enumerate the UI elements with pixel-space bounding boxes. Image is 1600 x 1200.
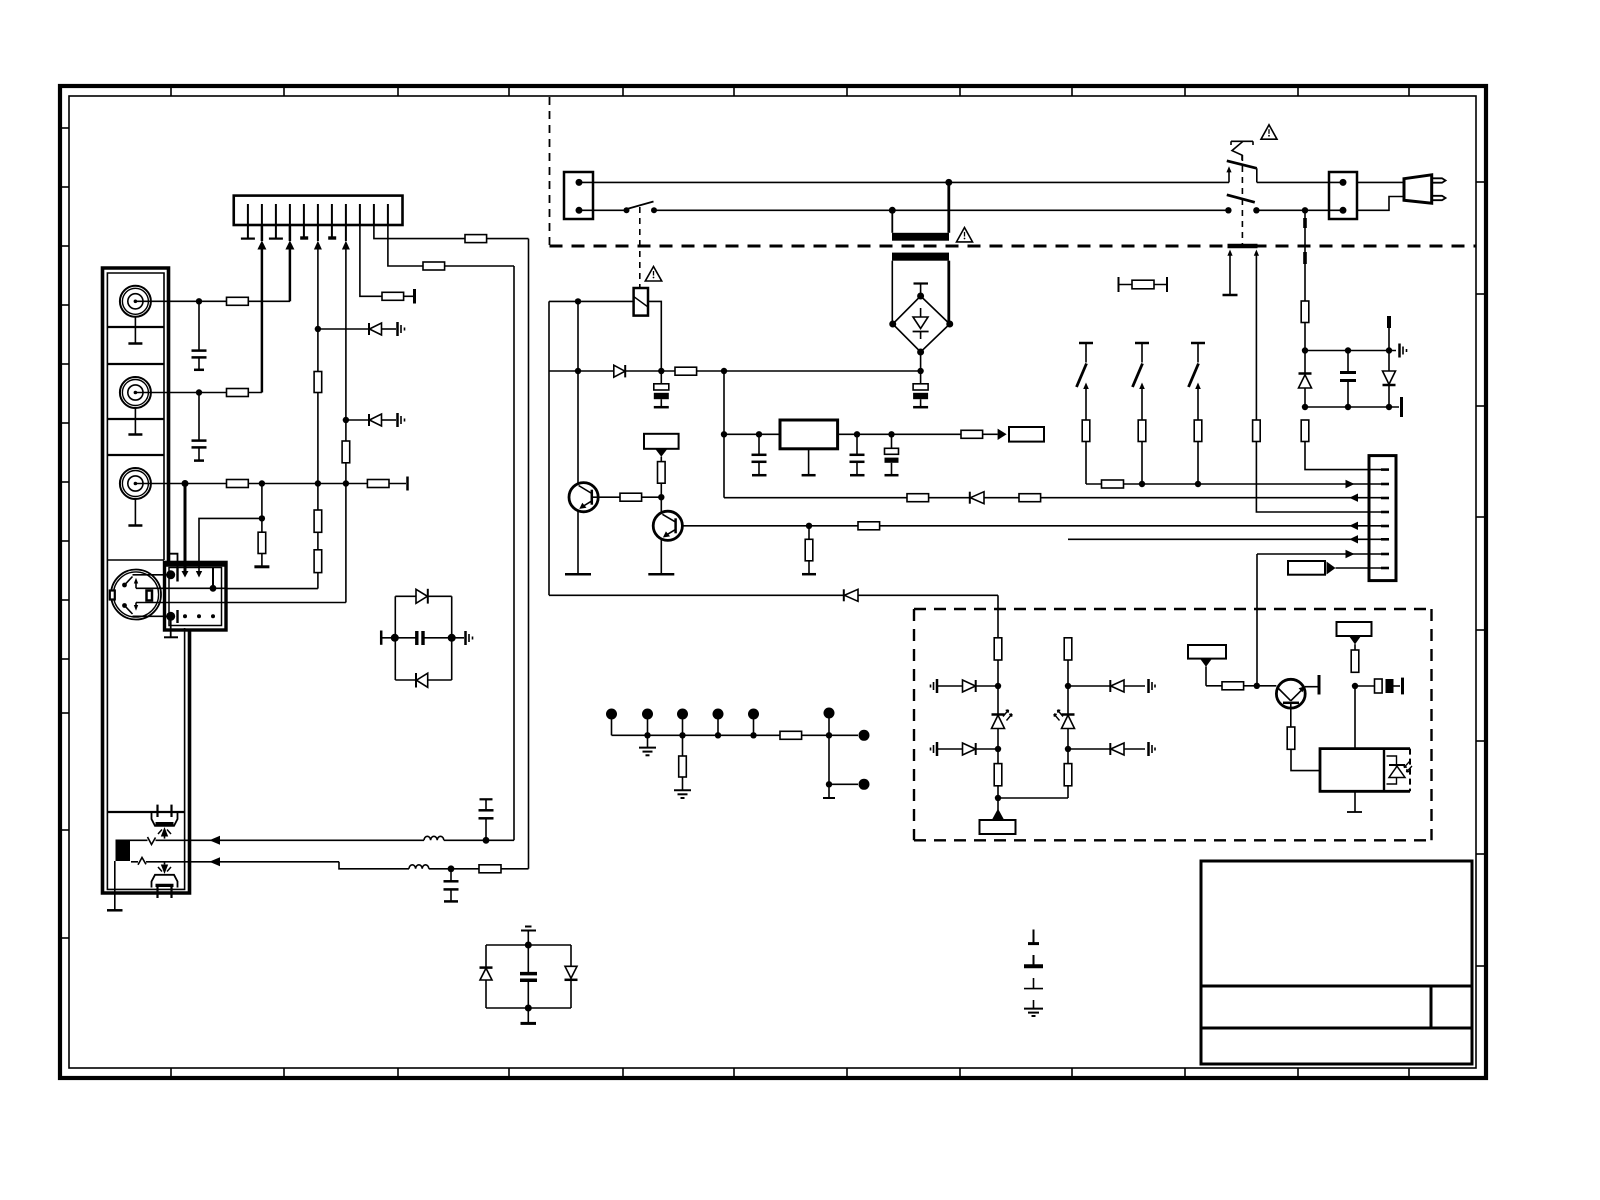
resistor on bus [1102,480,1124,488]
J1 pin3 stub with terminal [275,225,277,238]
node AGC cap [448,865,455,872]
arrow contact right below bar [1254,250,1259,256]
wire down to second row [828,735,830,784]
arrow into pin8 [1327,562,1336,575]
chassis ground right of snubber row [1398,344,1401,358]
node fuse-relay junction [575,298,581,304]
wire svideo luma feed [226,588,318,590]
net label box standby [1188,645,1226,659]
transformer center tap terminal [920,284,922,297]
wire svideo chroma feed [226,602,346,604]
diode clamp lower B [1068,748,1110,750]
pin box top stub contact [212,568,214,588]
S-video pin 2 [134,578,138,584]
S-video pin 4 [134,605,138,611]
wire IF line to coil [156,839,425,841]
net label box LED common [980,820,1016,834]
node LED B upper [1065,683,1071,689]
resistor Q3 emitter [1287,727,1295,749]
bridge rectifier BR1 diamond [893,296,950,352]
regulator U1 [780,420,838,449]
resistor on bus right [780,731,802,739]
node jack C right 1 [259,480,265,486]
node row526 divider [806,523,812,529]
P1 pin dots [576,179,583,186]
resistor AGC [479,865,501,873]
resistor 2 on row 497 [1019,494,1041,502]
arrow IF into panel [209,836,220,845]
node 371 bridge output [917,368,923,374]
degauss posistor switch A [1079,342,1093,345]
panel divider tuner [107,811,184,813]
node 371 relay output [658,368,664,374]
rear panel outer outline [103,268,190,893]
resistor Q3 base [1222,682,1244,690]
wire base row to pin5 [682,525,1381,527]
pin box bottom row contacts [166,612,175,621]
wire pin7 feed [1257,553,1381,555]
wire PSU bottom rail [549,594,998,596]
wire jack A row [135,300,290,302]
chassis ground loop [464,631,467,645]
chassis ground chroma clamp [396,413,399,427]
electrolytic capacitor at opto [1355,685,1375,687]
tuner block black [116,840,131,862]
diode top of loop [416,589,427,603]
node loop right [448,634,456,642]
resistor pin10 [465,235,487,243]
warning triangle at transformer [957,228,973,242]
arrow out of pin6 [1349,535,1358,543]
degauss posistor switch C [1191,342,1205,345]
transistor Q1 [569,483,598,512]
electrolytic capacitor at 661 [654,384,669,390]
J1 pin10 wire to rail B [374,225,529,239]
panel divider 4 [107,454,164,456]
rail A vertical [513,266,515,840]
node input cap [756,431,762,437]
resistor LED column A top [994,638,1002,660]
degauss posistor switch B [1135,342,1149,345]
dashed link S1 to fuse [639,207,641,288]
node loop left [391,634,399,642]
transformer T1 primary leads [947,182,950,232]
node opto top [1352,683,1358,689]
fuse F1 (box with diagonal) [634,288,648,316]
resistor to ground at 809 [808,526,810,540]
panel divider 5 [107,559,164,561]
AC plug prongs [1432,178,1446,182]
RCA jack J-A [120,286,151,317]
wire jackC to svideo shell [184,484,187,572]
arrow out of pin3 [1349,494,1358,502]
wire LED feed to pin6 [1068,538,1381,540]
wire ground link column [261,484,263,533]
opto coil top lead [1354,686,1356,749]
resistor ground link [258,532,266,553]
CRT socket pin dot 5 [748,709,759,720]
clamp diode chroma [346,419,369,421]
LED B [1067,686,1069,714]
J1 pin6 wire with arrow [317,225,319,241]
wire bridge output to DC node [920,352,922,371]
resistor jack C end [367,480,389,488]
ground right lower [1147,742,1150,756]
legend terminal symbol 1 [1033,930,1035,944]
title block [1201,861,1472,1064]
wire bus to connector pin2 [1086,483,1381,485]
node output cap 2 [888,431,894,437]
node jack C right 3 [343,480,349,486]
terminal below diode pair [527,1008,529,1023]
transformer T1 secondary leads [891,261,893,324]
terminal bar end of lower row [1400,397,1403,417]
resistor divider upper [658,462,666,484]
node jack B cap [196,389,202,395]
terminal bar jack C row [406,477,409,491]
arrow into pin2 [1346,480,1355,488]
transistor Q2 [653,511,682,540]
wire AC line lower segment 2 [654,209,1228,211]
wire AGC line inside panel [131,861,138,863]
capacitor IF with terminal [485,819,487,841]
node LED B lower [1065,746,1071,752]
wire jack C row [135,483,367,485]
resistor degauss (vertical) [1301,301,1309,323]
tuner IF output symbol [152,813,178,826]
resistor LED A lower [997,749,999,764]
resistor on row 497 [907,494,929,502]
zener diode down at 1389 [1388,351,1390,372]
resistor pin11 [423,262,445,270]
resistor LED B lower [1067,749,1069,764]
frame zone ticks right [1476,182,1486,966]
net label box at pin8 [1288,561,1325,575]
terminal above bottom diode pair [525,926,532,928]
diode clamp upper A [937,685,963,687]
resistor LED column B top [1064,638,1072,660]
opto bottom lead to ground [1354,791,1356,811]
wire connector to plug upper [1357,181,1404,183]
node regulator input [721,431,727,437]
contact gap AGC [138,858,146,865]
ground left lower [936,742,939,756]
panel divider 2 [107,363,164,365]
capacitor jack A [198,301,200,350]
S-video key slots [110,591,115,600]
node jack C right 2 [315,480,321,486]
node 371 at Q1 column [575,368,581,374]
mains interlock switch S2a [1231,140,1253,142]
frame zone ticks bottom [171,1068,1409,1078]
node output cap 1 [854,431,860,437]
legend terminal symbol 3 [1033,978,1035,988]
earth ground below resistor [674,789,691,791]
arrow AGC into panel [209,857,220,866]
transformer T1 secondary bar [892,253,949,261]
mains interlock switch S2b [1227,195,1255,203]
optocoupler/relay box [1320,749,1410,792]
wire CRT ground bus [612,734,781,736]
node IF cap [483,837,490,844]
J1 pin5 stub with half bar [303,225,305,237]
resistor opto feed [1351,650,1359,672]
arrow from label [1200,659,1212,667]
terminal stub above snubber [1387,316,1391,328]
warning triangle at mains switch [1261,125,1277,139]
antenna isolation loop [395,595,451,597]
resistor luma lower 2 [317,532,319,550]
contact gap IF [148,837,156,845]
node bus junctions [1139,481,1145,487]
J1 pin7 stub with half bar [331,225,333,237]
wire DC rail row 371 [549,370,921,372]
J1 pin2 wire to jack B [261,225,264,241]
wire AGC step [339,862,409,869]
transformer T1 primary bar [892,233,949,241]
drawing frame outer border [60,86,1486,1078]
wire to pin dot 7 [829,734,858,736]
node top of diode pair [525,942,532,949]
node degauss column top [1302,207,1308,213]
diode on row 497 [969,492,971,504]
RCA jack J-C [120,468,151,499]
wire fuse to rectifier column [648,301,661,371]
wire regulator column [723,371,725,498]
diode clamp upper B [1068,685,1110,687]
resistor luma column [314,372,322,393]
connector J2 (8-pin right) [1369,456,1396,581]
resistor jack C [227,480,249,488]
zener diode up at 1305 [1304,351,1306,374]
wire AGC coil to resistor [429,868,479,870]
wire LED common [998,797,1068,799]
wire snubber row lower [1305,406,1399,408]
tuner AGC input symbol [152,875,178,888]
rail B vertical [528,239,530,869]
pin box top row contacts [166,570,175,579]
node bus right [826,732,832,738]
panel divider 3 [107,418,164,420]
diode on bottom rail [843,589,845,601]
terminal stub below [828,784,830,797]
CRT socket pin dot 2 [642,709,653,720]
frame zone ticks top [171,86,1409,96]
wire col 1256 to pin4 [1256,442,1381,513]
pin box side link [169,554,178,568]
resistor at col 1305 [1301,420,1309,442]
dashed front panel box [914,609,1432,840]
node LED A lower [995,746,1001,752]
ground tuner shield [114,861,116,910]
node jack A cap [196,298,202,304]
thermal element bar on boundary [1228,244,1258,249]
capacitor snubber at 1348 [1347,351,1349,373]
fusible resistor with terminals [1118,277,1120,292]
wire IF line inside panel [130,839,148,841]
wire Q1 base [592,496,620,498]
chassis ground luma clamp [396,322,399,336]
J1 pin8 wire with arrow [345,225,347,241]
J1 pins inside [248,204,388,225]
S-video pin box [165,562,227,630]
dashed AC-section boundary horizontal [550,245,1477,248]
S-video pin 1 [122,583,127,588]
wire left rail of PSU box [548,301,550,595]
diode up in pair [480,966,493,969]
wire mains to fuse [549,300,634,302]
clamp diode luma [318,328,369,330]
resistor at col 1256 [1253,420,1261,442]
S-video pin 3 [122,603,127,608]
frame zone ticks left [60,128,69,938]
resistor on row 526 [858,522,880,530]
AC plug body [1404,175,1432,203]
regulator ground lead [808,449,810,475]
switch S1 power [624,207,630,213]
J2 pin bars [1381,470,1389,568]
capacitor regulator output [856,434,858,454]
electrolytic capacitor regulator output [885,448,899,454]
resistor jack B [227,389,249,397]
ground Q2 emitter [648,573,674,576]
CRT socket pin dot 6 [824,708,835,719]
dashed link S2 levers [1241,155,1243,244]
capacitor mid pair [520,972,537,976]
wire to Q3 base [1206,685,1276,687]
panel divider 1 [107,326,164,328]
inductor IF line [424,836,444,840]
resistor chroma column [342,441,350,463]
node LED common [995,795,1001,801]
drawing frame inner border [69,96,1476,1068]
dashed AC-section boundary vertical [549,97,551,246]
diode clamp lower A [937,748,963,750]
wire AGC line right [146,861,339,863]
resistor Q1 base [620,493,642,501]
transistor Q3 [1276,679,1305,708]
wire bottom rail into dashed box [997,595,999,638]
net label box supply [1009,427,1044,442]
diode pair loop wires [486,944,571,946]
wire upper AC to connector right [1257,181,1343,183]
CRT socket pin dot 4 [713,709,724,720]
J1 pin1 stub with terminal [247,225,249,238]
CRT socket pin dot 1 [606,709,617,720]
ground Q1 emitter [565,573,591,576]
node chroma column clamp [343,417,349,423]
arrow into pin7 [1346,550,1355,558]
inductor AGC line [409,865,429,869]
capacitor jack B [198,393,200,441]
wire col 1305 to pin1 [1305,442,1381,470]
wire lower AC to connector right [1256,209,1343,211]
electrolytic capacitor at bridge output [913,384,928,390]
legend earth ground symbol [1033,1000,1035,1008]
capacitor AGC to ground [450,869,452,881]
node snubber row upper [1302,347,1308,353]
node bottom of diode pair [525,1005,532,1012]
arrow to supply net label [998,429,1007,440]
wire pin7 column down [1256,554,1258,686]
wire connector to plug lower [1357,197,1404,211]
node LED A upper [995,683,1001,689]
wire regulator output row [838,433,961,435]
Q3 emitter lead [1290,703,1292,727]
resistor jack A [227,297,249,305]
resistor luma lower 1 [317,484,319,511]
diode bottom of loop [415,673,417,688]
S-video connector shell [111,570,161,620]
wire regulator feed row to pin3 [724,497,1381,499]
wire degauss column [1304,210,1306,301]
connector P1 (2-pin AC input left) [564,172,593,219]
earth ground on bus [647,735,649,747]
wire ground link to pin box [199,518,262,571]
J1 pin9 wire to terminated resistor [360,225,382,296]
J1 pin4 wire to jack A [289,225,292,241]
connector P2 (2-pin AC output right) [1329,172,1357,219]
capacitor in loop [380,631,383,645]
J1 pin11 wire to rail A [388,225,514,266]
node 371 regulator column [721,368,727,374]
wire snubber row upper [1305,350,1396,352]
ground left upper [936,679,939,693]
bridge rectifier BR1 inner diode [920,308,922,317]
resistor on row 371 [675,367,697,375]
diode down in pair [565,966,577,978]
LED A [997,686,999,714]
CRT socket pin dot 3 [677,709,688,720]
legend terminal symbol 2 [1033,955,1035,966]
diode on row 371 [614,365,625,377]
node AC line at transformer left [889,207,896,214]
arrow out of pin5 [1349,522,1358,530]
wire AC line lower segment 1 [579,209,627,211]
net label box above divider [644,434,679,449]
resistor regulator output [961,430,983,438]
node ground link [259,515,265,521]
CRT socket pin stems [611,714,613,735]
wire IF coil to rail A [444,839,514,841]
RCA jack J-B [120,377,151,408]
arrow from label down [655,449,667,457]
photodiode inside [1387,756,1397,784]
node Q1 base / Q2 collector [658,494,664,500]
capacitor regulator input [758,434,760,454]
node jack C pin [182,480,189,487]
resistor on bus to ground [682,735,684,756]
net label box opto [1337,622,1372,636]
arrow contact left below bar [1227,250,1232,256]
warning triangle near fuse [645,267,661,282]
node luma column clamp [315,326,321,332]
wire regulator input row [724,433,780,435]
wire to pin dot 8 [829,783,858,785]
pin box shield stub below [170,616,172,637]
arrow to label below [992,809,1004,820]
node base junction [1254,683,1260,689]
node AC line at transformer right [945,179,952,186]
wire AC line upper [579,181,1229,183]
arrow from opto label [1349,636,1361,644]
ground right upper [1147,679,1150,693]
wire jack B row [135,392,262,394]
connector J1 (11-pin top) [234,196,403,225]
terminal bar Q3 collector [1318,675,1321,695]
rear panel inner outline [107,273,184,889]
